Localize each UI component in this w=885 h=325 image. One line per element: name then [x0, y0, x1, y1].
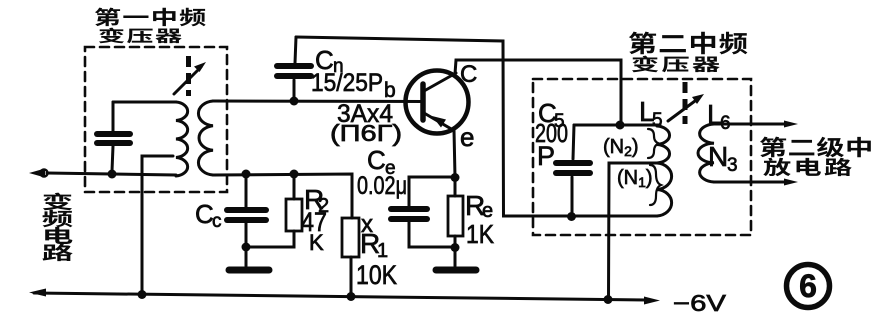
label Cn: [315, 45, 344, 77]
adjustment arrow of T1: [174, 62, 206, 94]
svg-text:(П6Г): (П6Г): [330, 120, 402, 146]
brace for N1: [650, 165, 661, 205]
transistor collector stroke: [424, 73, 456, 91]
svg-text:c: c: [212, 211, 222, 232]
bottom supply bus: [29, 289, 660, 305]
wire: emitter down to junction: [454, 130, 455, 177]
capacitor C5: [556, 125, 590, 216]
wire: T1 primary tap down to supply bus: [142, 156, 173, 295]
svg-text:b: b: [384, 79, 396, 102]
svg-text:P: P: [537, 141, 555, 171]
wire: T1 primary top: [113, 101, 176, 104]
capacitor Cc: [227, 174, 266, 247]
wire: bias line from T1 secondary bottom: [213, 174, 352, 218]
capacitor Ce (emitter bypass) leads: [391, 177, 455, 247]
transistor base bar: [420, 84, 426, 120]
label: first IF transformer title 第一中频变压器: [95, 8, 206, 44]
svg-text:C: C: [195, 199, 214, 229]
node: collector feed junction on tank top: [616, 121, 625, 130]
wire: output top with arrow: [714, 121, 798, 128]
svg-text:3: 3: [727, 155, 738, 176]
svg-text:e: e: [460, 122, 474, 152]
adjustment arrow of T2: [668, 94, 704, 121]
label L6: [707, 99, 731, 134]
svg-text:C: C: [367, 145, 386, 175]
svg-text:6: 6: [799, 268, 817, 304]
svg-text:5: 5: [652, 110, 663, 131]
label Cc: [195, 199, 222, 232]
capacitor (T1 primary tuning capacitor): [97, 102, 130, 171]
svg-text:−6V: −6V: [673, 290, 727, 316]
svg-text:(N1): (N1): [617, 167, 653, 190]
svg-text:C: C: [460, 61, 477, 88]
dashed enclosure of second IF transformer T2: [533, 79, 751, 235]
label C5: [538, 98, 565, 132]
label Ce: [367, 145, 396, 179]
wire: Cn neutralisation path (top, across, down to T2 tank bottom): [296, 37, 657, 216]
wire: output bottom with arrow: [714, 179, 798, 186]
node: Cc top junction: [242, 170, 251, 179]
figure number 6 (circled): [787, 265, 830, 308]
svg-text:N: N: [708, 141, 728, 172]
node: R2 top junction: [290, 170, 299, 179]
ground below Cc: [229, 247, 269, 270]
node: T1 tap on bus: [138, 290, 147, 299]
node: C5 bottom junction: [567, 212, 576, 221]
label: second IF transformer title 第二中频变压器: [629, 32, 748, 73]
transistor emitter stroke with PNP arrow: [424, 113, 453, 130]
svg-text:10K: 10K: [356, 260, 397, 290]
resistor R2: [246, 174, 302, 247]
resistor Re: [448, 177, 463, 247]
svg-text:0.02μ: 0.02μ: [357, 172, 407, 200]
wire: L5 tap to supply bus: [609, 163, 658, 299]
label: 第二级中放电路 (to 2nd stage IF amp): [760, 137, 871, 177]
wire: base line from T1 secondary to transistor: [213, 100, 423, 104]
node: L5 tap on bus: [604, 295, 613, 304]
svg-text:(N2): (N2): [603, 136, 639, 159]
transistor Q1 3AX4 (ПNП) circle: [406, 71, 469, 134]
label R1: [360, 228, 388, 262]
svg-text:15/25P: 15/25P: [311, 69, 383, 97]
transformer T1 secondary winding: [198, 101, 213, 175]
svg-text:1: 1: [377, 240, 388, 262]
brace for N2: [648, 129, 659, 158]
wire: T1 primary bottom to capacitor junction: [112, 174, 176, 175]
winding L5: [657, 126, 672, 216]
resistor R1: [342, 218, 359, 296]
input terminal arrow from converter circuit: [29, 169, 112, 178]
label N3: [708, 141, 738, 176]
adjustable core of T2 (dashed core bar): [683, 82, 688, 124]
wire: collector up, across and down into T2: [455, 60, 621, 124]
label: 变频电路 (converter circuit) vertical text: [42, 193, 72, 262]
wire: tank top: [574, 124, 660, 127]
node: Re bottom junction: [451, 243, 460, 252]
node: Cc bottom junction: [242, 243, 251, 252]
capacitor Cn: [277, 37, 311, 101]
svg-text:K: K: [309, 230, 324, 255]
node: emitter junction: [451, 173, 460, 182]
node: R1 bottom on bus: [347, 292, 356, 301]
svg-text:1K: 1K: [466, 219, 495, 249]
node: Cn junction on base wire: [290, 97, 299, 106]
node: input / tuning-capacitor junction: [108, 170, 117, 179]
adjustable core of T1 (dashed core bar): [186, 56, 191, 96]
transformer T1 primary winding: [176, 102, 188, 176]
label Re: [465, 190, 493, 222]
ground below Re: [436, 247, 476, 270]
dashed enclosure of first IF transformer T1: [85, 47, 227, 192]
winding L6 (N3): [698, 124, 714, 182]
label L5: [639, 96, 663, 131]
label R2: [304, 184, 329, 217]
